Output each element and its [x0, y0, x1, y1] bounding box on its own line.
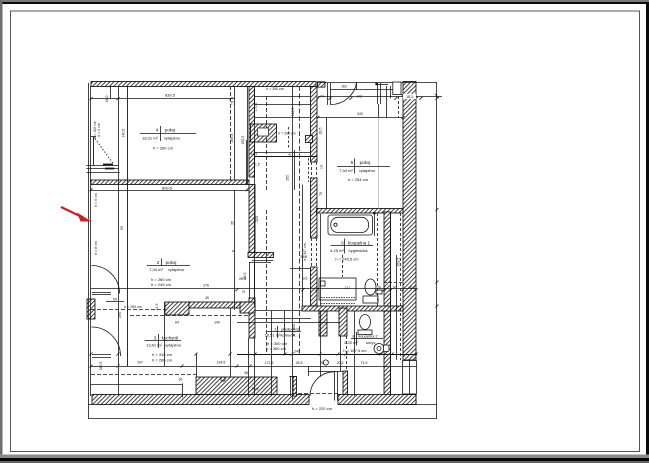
svg-text:295: 295: [118, 312, 122, 318]
svg-text:40,5: 40,5: [409, 286, 415, 290]
svg-text:h = 8 cm: h = 8 cm: [94, 241, 98, 255]
svg-text:110,5: 110,5: [291, 108, 295, 117]
svg-text:N2: N2: [393, 286, 397, 290]
svg-text:41: 41: [288, 153, 292, 157]
svg-text:h = 260 cm: h = 260 cm: [266, 346, 287, 351]
svg-text:vytápěno: vytápěno: [359, 168, 376, 173]
svg-text:vytápěno: vytápěno: [165, 343, 182, 348]
svg-text:4,25 m²: 4,25 m²: [330, 248, 344, 253]
svg-text:pokoj: pokoj: [166, 260, 177, 265]
svg-text:35: 35: [231, 221, 235, 225]
svg-text:36: 36: [244, 371, 248, 375]
svg-text:20,5: 20,5: [252, 387, 259, 391]
svg-text:18,3: 18,3: [406, 95, 413, 99]
svg-text:90: 90: [113, 298, 117, 302]
svg-text:28: 28: [377, 286, 381, 290]
svg-text:44,0: 44,0: [105, 96, 109, 103]
svg-text:64: 64: [175, 320, 179, 324]
svg-text:74: 74: [320, 95, 324, 99]
svg-text:h = 0 cm: h = 0 cm: [97, 123, 101, 137]
svg-text:14,5: 14,5: [251, 152, 257, 156]
svg-text:252,5: 252,5: [241, 136, 245, 145]
svg-text:90: 90: [120, 226, 124, 230]
svg-text:h = 260 cm: h = 260 cm: [153, 146, 174, 151]
svg-text:vytápěno: vytápěno: [168, 267, 185, 272]
svg-text:36: 36: [205, 296, 209, 300]
svg-text:252: 252: [286, 175, 290, 181]
svg-text:vytápěno: vytápěno: [164, 136, 181, 141]
svg-text:h = 300: h = 300: [292, 324, 296, 336]
svg-text:11,5: 11,5: [254, 163, 260, 167]
svg-text:28,5: 28,5: [296, 361, 303, 365]
svg-text:28,5: 28,5: [319, 128, 323, 135]
svg-text:14,5: 14,5: [155, 304, 159, 311]
svg-text:170,5: 170,5: [254, 103, 258, 112]
svg-text:18,51 m²: 18,51 m²: [265, 333, 281, 338]
svg-text:2,20 m²: 2,20 m²: [344, 340, 358, 345]
svg-text:140: 140: [214, 320, 220, 324]
svg-text:297: 297: [137, 361, 143, 365]
svg-text:20,6: 20,6: [337, 361, 344, 365]
svg-text:26: 26: [232, 249, 236, 253]
svg-text:240: 240: [294, 350, 300, 354]
svg-text:18: 18: [242, 290, 246, 294]
svg-text:pokoj: pokoj: [165, 128, 176, 133]
svg-text:h = 250 cm: h = 250 cm: [124, 305, 141, 309]
svg-text:255,3: 255,3: [230, 134, 234, 143]
svg-text:pokoj: pokoj: [360, 160, 371, 165]
svg-text:7,34 m²: 7,34 m²: [339, 168, 353, 173]
svg-text:162: 162: [341, 85, 347, 89]
svg-text:90: 90: [320, 361, 324, 365]
svg-text:13,61 m²: 13,61 m²: [146, 343, 162, 348]
svg-text:13: 13: [320, 165, 324, 169]
svg-text:73: 73: [231, 101, 235, 105]
svg-text:142: 142: [356, 95, 362, 99]
svg-text:223: 223: [255, 216, 259, 222]
svg-text:172,5: 172,5: [265, 361, 274, 365]
svg-text:140,5: 140,5: [122, 129, 126, 138]
svg-text:umýv.: umýv.: [366, 340, 376, 345]
svg-text:h = 347 cm: h = 347 cm: [303, 243, 307, 260]
svg-text:117: 117: [345, 286, 351, 290]
svg-text:7,34 m²: 7,34 m²: [149, 267, 163, 272]
svg-text:18,31 m²: 18,31 m²: [142, 136, 158, 141]
svg-text:h = 187,5 cm: h = 187,5 cm: [343, 348, 367, 353]
svg-text:h = 290 cm: h = 290 cm: [278, 132, 295, 136]
svg-text:340: 340: [357, 112, 363, 116]
svg-text:kuchyně: kuchyně: [162, 336, 179, 341]
svg-text:345,5: 345,5: [99, 362, 103, 371]
svg-text:h = 5 cm: h = 5 cm: [94, 193, 98, 207]
svg-text:74,5: 74,5: [361, 361, 368, 365]
svg-text:h = 310 cm: h = 310 cm: [152, 352, 173, 357]
svg-text:28,5: 28,5: [243, 273, 247, 280]
svg-text:252,5: 252,5: [397, 258, 401, 267]
svg-text:předpokoj: předpokoj: [281, 327, 299, 332]
svg-text:koupelna 2: koupelna 2: [358, 334, 378, 339]
svg-text:276: 276: [203, 284, 209, 288]
svg-text:hygienická: hygienická: [349, 248, 369, 253]
svg-text:9,5: 9,5: [303, 277, 308, 281]
svg-text:h = 220 cm: h = 220 cm: [312, 406, 333, 411]
svg-text:koupelna 1: koupelna 1: [348, 241, 371, 246]
svg-text:839,5: 839,5: [165, 93, 176, 98]
svg-text:h = 254 cm: h = 254 cm: [348, 177, 369, 182]
svg-text:194,5: 194,5: [217, 361, 226, 365]
svg-text:36: 36: [179, 378, 183, 382]
svg-text:h = 250 cm: h = 250 cm: [266, 87, 283, 91]
svg-text:h = 249 cm: h = 249 cm: [151, 282, 172, 287]
svg-text:h = 260 cm: h = 260 cm: [152, 357, 173, 362]
svg-text:h = 245,5 cm: h = 245,5 cm: [335, 257, 359, 262]
svg-text:76: 76: [319, 192, 323, 196]
svg-text:809,5: 809,5: [162, 185, 173, 190]
